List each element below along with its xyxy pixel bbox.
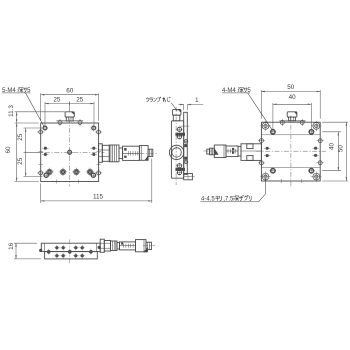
svg-text:60: 60 [5,146,12,154]
svg-text:4-4.5: 4-4.5 [201,196,215,202]
svg-text:25: 25 [17,133,24,141]
svg-text:25: 25 [17,157,24,165]
svg-text:60: 60 [66,88,74,95]
svg-text:16: 16 [8,242,15,250]
svg-text:,7.5: ,7.5 [223,196,234,202]
svg-text:40: 40 [289,94,297,101]
svg-text:115: 115 [93,193,104,200]
svg-text:25: 25 [76,96,84,103]
svg-text:50: 50 [287,84,295,91]
svg-text:50: 50 [338,145,345,153]
svg-text:11.3: 11.3 [8,105,15,117]
svg-text:25: 25 [53,96,61,103]
svg-text:40: 40 [329,143,336,151]
